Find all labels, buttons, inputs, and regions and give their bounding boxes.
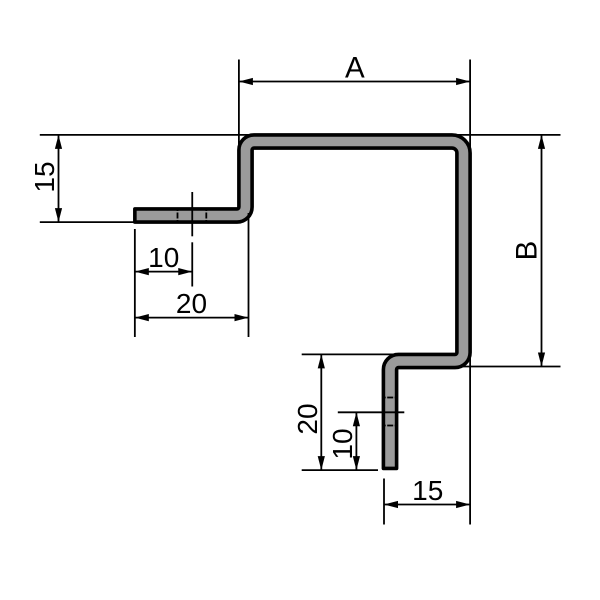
svg-text:15: 15: [412, 475, 443, 506]
bottom-right 10 arrows: [353, 412, 360, 426]
svg-text:10: 10: [327, 428, 358, 459]
15-left bottom extension: [40, 221, 134, 223]
top face long extension line (15-top, A tangent, B-top): [40, 134, 561, 136]
svg-text:A: A: [345, 52, 365, 85]
A right long extension: [469, 60, 471, 525]
bottom-right 20 arrows: [318, 354, 325, 368]
bottom 15 arrows: [384, 501, 398, 508]
B bottom extension: [457, 366, 561, 368]
15-left arrows: [55, 135, 62, 149]
bottom-right 20 top extension: [302, 353, 446, 355]
15-left dimension line: [58, 135, 60, 222]
bottom hole edge ticks: [383, 397, 397, 399]
arrowheads: [55, 78, 545, 508]
20-left dimension line: [135, 317, 249, 319]
svg-text:20: 20: [292, 403, 323, 434]
svg-text:10: 10: [148, 242, 179, 273]
B dimension line: [541, 135, 543, 367]
left hole centerline (dashed long): [191, 192, 193, 236]
20-left arrows: [135, 314, 149, 321]
bottom-right 10 dimension line: [355, 412, 357, 470]
left 10/20 left extension: [134, 229, 136, 337]
A left extension: [238, 60, 240, 147]
svg-text:B: B: [511, 241, 544, 261]
sheet-metal Z-profile cross-section: [135, 135, 470, 469]
bottom 15 dimension line: [384, 504, 470, 506]
bottom-right 20/10 bottom extension: [302, 469, 378, 471]
10-left arrows: [135, 268, 149, 275]
bottom 15 left extension: [383, 479, 385, 525]
bottom hole centerline: [338, 411, 405, 413]
left hole edge ticks: [177, 208, 179, 223]
10-left dimension line: [135, 271, 192, 273]
20-left right extension: [248, 213, 250, 337]
svg-text:15: 15: [29, 161, 60, 192]
A dimension line: [239, 81, 470, 83]
A arrows: [239, 78, 253, 85]
svg-text:20: 20: [176, 288, 207, 319]
B arrows: [538, 135, 545, 149]
bottom-right 20 dimension line: [320, 354, 322, 470]
thin dimension / extension lines: [40, 60, 561, 525]
